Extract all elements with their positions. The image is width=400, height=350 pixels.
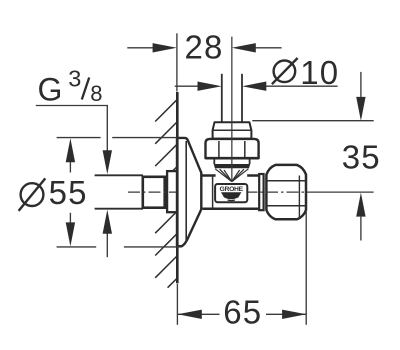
svg-text:65: 65 [223, 294, 262, 331]
svg-text:28: 28 [184, 29, 223, 66]
top compression nut [206, 139, 259, 158]
GROHE laurel mark [221, 192, 241, 199]
funnel fan rays [215, 169, 248, 182]
horizontal centerline right [246, 191, 309, 193]
wall hatching [155, 100, 176, 288]
vertical centerline [231, 37, 233, 181]
horizontal centerline left [128, 191, 177, 193]
dimension Ø55 [57, 138, 182, 247]
dimension 65 [177, 211, 306, 325]
nut lower flange [213, 158, 215, 164]
svg-text:8: 8 [90, 81, 102, 106]
label G 3/8 with leader [36, 106, 108, 152]
escutcheon front face line [185, 141, 187, 243]
outlet pipe (vertical, Ø10) [222, 74, 242, 122]
outlet olive sleeve (right) [259, 174, 263, 210]
svg-text:3: 3 [68, 66, 81, 92]
olive sleeve top [213, 122, 252, 138]
outlet compression nut [266, 165, 306, 219]
dimension 28 [127, 33, 281, 91]
svg-text:GROHE: GROHE [219, 186, 243, 193]
svg-text:55: 55 [49, 174, 88, 211]
dimension Ø10 [175, 85, 338, 87]
GROHE logo plate [215, 184, 247, 202]
wall face [176, 92, 179, 283]
escutcheon [177, 138, 201, 246]
svg-text:35: 35 [342, 139, 381, 176]
valve body tube [202, 176, 259, 209]
dimension 35 [252, 72, 373, 241]
wall collar [167, 171, 177, 212]
body joint line [212, 176, 214, 208]
svg-text:10: 10 [300, 54, 339, 91]
svg-text:G: G [38, 72, 63, 108]
G3/8 thread block [143, 177, 165, 208]
supply pipe shank [95, 175, 143, 208]
